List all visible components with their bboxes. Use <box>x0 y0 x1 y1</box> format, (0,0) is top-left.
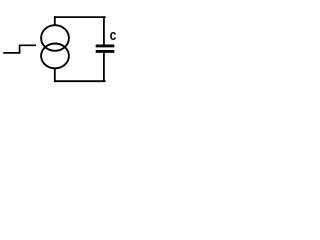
svg-text:C: C <box>110 31 117 44</box>
